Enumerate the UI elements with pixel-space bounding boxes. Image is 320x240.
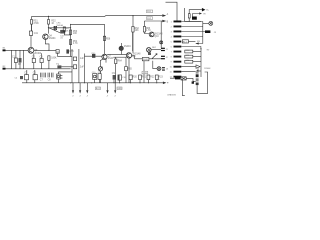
svg-text:R56: R56 (106, 39, 111, 41)
component X3 box (73, 65, 76, 69)
wire R15 down (144, 21, 149, 34)
wire input to Q2 (6, 49, 29, 51)
ground arrow G2 (79, 90, 81, 93)
wire X9 right (193, 56, 201, 58)
wire C1 bottom lead (30, 35, 32, 47)
trimmer T2 (100, 59, 106, 83)
svg-text:.05: .05 (60, 38, 64, 40)
wire top rail A (32, 15, 163, 18)
wire line y13.2 (193, 14, 200, 17)
svg-text:D2: D2 (18, 64, 22, 66)
resistor R17 (125, 67, 128, 71)
wire pin13 left (170, 77, 175, 79)
resistor R3 (63, 27, 65, 31)
capacitor C2 blob (60, 30, 65, 34)
capacitor C7 (25, 75, 29, 80)
svg-text:J300: J300 (143, 73, 148, 75)
svg-text:7: 7 (171, 51, 173, 53)
capacitor C20 dark (192, 17, 197, 20)
wire R11 stub (147, 80, 149, 83)
wire J300 to bus (143, 74, 145, 83)
wire vline x201 (200, 49, 202, 77)
svg-text:1N34A: 1N34A (56, 24, 63, 27)
component dark blob lower right (192, 81, 194, 83)
wire X8 right (193, 51, 201, 53)
svg-text:2N40: 2N40 (108, 58, 114, 60)
resistor R10 (139, 75, 142, 80)
label DX2 (146, 17, 152, 20)
node junction x201 (200, 48, 201, 49)
svg-text:4: 4 (171, 36, 173, 38)
svg-text:R64: R64 (118, 61, 123, 63)
box X7 (182, 40, 188, 43)
ground drop G3 (86, 83, 88, 91)
jack J2 bars (162, 67, 165, 68)
svg-text:-9: -9 (114, 95, 116, 97)
capacitor C9 pair (41, 73, 43, 78)
jack J1 bars (161, 48, 165, 49)
wire pin4 right (181, 36, 203, 38)
wire R1 bottom lead (31, 24, 33, 31)
trimmer arrow (152, 54, 157, 59)
stack component S2 (196, 74, 199, 77)
transistor Q5 (149, 32, 154, 37)
resistor R7 (103, 36, 105, 40)
wire R16 down (115, 64, 117, 83)
wire C4 leads (33, 53, 35, 69)
svg-text:3: 3 (171, 31, 173, 33)
wire ground rail left (6, 68, 71, 70)
svg-text:GND: GND (117, 88, 122, 90)
transistor Q3 (102, 54, 107, 59)
component X4 dark box (57, 65, 61, 68)
component X2 box (73, 57, 76, 61)
svg-text:8: 8 (171, 56, 173, 58)
svg-text:-9: -9 (86, 95, 88, 97)
wire R2 bottom lead (48, 24, 50, 28)
resistor R11 (147, 75, 150, 80)
transistor Q1 (43, 34, 48, 39)
resistor R16 (115, 59, 117, 64)
resistor R4 (70, 30, 72, 35)
X12 circle (57, 75, 59, 77)
svg-text:IN1: IN1 (2, 47, 5, 49)
svg-text:5: 5 (171, 41, 173, 43)
svg-text:J1: J1 (166, 49, 169, 51)
wire C13 stub (113, 80, 115, 83)
connector pin header (174, 21, 182, 78)
wire bottom bus (22, 82, 163, 84)
svg-text:4.7K: 4.7K (73, 43, 78, 45)
wire stack top (193, 70, 197, 81)
svg-text:9: 9 (171, 61, 173, 63)
wire R6 lead (58, 49, 72, 56)
wire R1 top stub (31, 17, 33, 20)
svg-text:R9: R9 (197, 41, 201, 43)
resistor R9 (129, 75, 132, 80)
wire column K4 (line A drop) (104, 36, 106, 54)
box D4 (142, 58, 149, 61)
wire bottom bus junctions (70, 82, 157, 83)
wire R2 top stub (48, 16, 50, 19)
svg-text:Q9: Q9 (132, 56, 136, 58)
wire X4 to K2 (61, 66, 73, 68)
svg-text:1K: 1K (51, 23, 54, 25)
svg-text:R22: R22 (150, 77, 155, 79)
wire left loop vertical 1b (23, 50, 25, 69)
capacitor C13 dark (113, 75, 116, 80)
svg-text:B+: B+ (206, 10, 209, 12)
wire pin3 to plug (181, 31, 205, 33)
wire pin2 right (181, 26, 203, 28)
svg-text:C6: C6 (33, 72, 37, 74)
svg-text:100K: 100K (51, 58, 57, 60)
resistor R6 dark (66, 49, 69, 53)
resistor R20 (188, 14, 190, 18)
wire R16 top stub (115, 57, 117, 59)
svg-text:B.01: B.01 (96, 88, 100, 90)
svg-text:Q10: Q10 (154, 36, 159, 38)
svg-text:DX2: DX2 (147, 18, 152, 20)
node junction B1 (64, 27, 65, 28)
svg-text:B: B (167, 22, 169, 24)
resistor R15 (143, 27, 145, 33)
wire R10 stub (139, 80, 141, 83)
stack component S4 (196, 83, 199, 86)
svg-text:J2: J2 (166, 57, 169, 59)
lamp X small (160, 41, 163, 44)
svg-text:10K: 10K (135, 30, 140, 32)
label L2 (142, 71, 148, 74)
wire C16 stub (99, 79, 101, 82)
wire pin6 right (181, 47, 201, 49)
svg-text:R65: R65 (128, 68, 133, 70)
svg-text:C21: C21 (98, 72, 101, 74)
svg-text:C8: C8 (48, 80, 52, 82)
svg-text:C20: C20 (92, 72, 95, 74)
wire Q2 to node (34, 49, 56, 51)
ground arrow G1 (72, 90, 74, 93)
svg-text:1uF: 1uF (80, 58, 85, 60)
arrow bottom bus (163, 82, 167, 85)
ground drop G4 (107, 83, 109, 91)
ground drop G1 (72, 83, 74, 91)
wire rail B right segment (144, 20, 162, 22)
input pin P2 (3, 68, 6, 70)
wire left loop vertical 2 (15, 50, 17, 69)
wire R20 top (189, 10, 202, 14)
component X5 dark (92, 54, 95, 58)
wire C8 stub (34, 70, 36, 83)
svg-text:10: 10 (170, 66, 173, 68)
svg-text:R21: R21 (142, 77, 147, 79)
transistor Q2 (28, 47, 34, 53)
lamp L2 (157, 67, 161, 71)
wire R14 top (132, 16, 134, 27)
wire R12 stub (156, 80, 158, 83)
wire D5 right (186, 78, 193, 81)
capacitor C10 pair (44, 73, 46, 78)
wire X12 top line (58, 72, 72, 74)
diode D1 (54, 26, 57, 29)
input pin P1 (3, 49, 6, 51)
resistor R12 (155, 75, 158, 80)
box X10 (185, 60, 193, 63)
svg-text:9V: 9V (207, 50, 210, 52)
svg-text:1: 1 (171, 21, 173, 23)
arrow right 2 (199, 12, 202, 14)
wire jack column feed (160, 21, 162, 48)
wire R20 bottom (185, 18, 201, 22)
wire C15 stub (94, 79, 96, 82)
lamp L1 (147, 48, 152, 53)
ground arrow G4 (106, 90, 108, 93)
stack component S3 (196, 78, 199, 81)
wire to lamp L3 (203, 22, 209, 24)
wire column K2 (71, 49, 73, 83)
capacitor C4 (32, 58, 35, 62)
diode D3 dark (19, 58, 22, 63)
capacitor C16 (98, 74, 101, 80)
svg-text:6: 6 (171, 46, 173, 48)
resistor R2 (48, 20, 50, 25)
pin13 bar (175, 77, 180, 79)
capacitor C8 (33, 75, 37, 80)
ground drop G2 (79, 83, 81, 91)
label bus box 2 (117, 87, 122, 90)
svg-text:J3: J3 (214, 32, 217, 34)
svg-text:2N404: 2N404 (124, 46, 131, 48)
box label X6 (56, 50, 59, 54)
ground arrow G5 (114, 90, 116, 93)
wire tail x182.4 (182, 80, 184, 96)
box X8 (185, 50, 193, 53)
svg-text:C9: C9 (112, 73, 116, 75)
wire Q1 collector diagonal (45, 28, 60, 51)
ground drop G5 (114, 83, 116, 91)
wire Q4 collector up (132, 32, 134, 51)
resistor R14 (132, 27, 134, 33)
wire column K3 (78, 49, 80, 83)
wire corner top right (166, 2, 178, 20)
svg-text:A: A (167, 13, 169, 16)
arrow head rail A (162, 14, 166, 17)
capacitor C15 circle (93, 75, 96, 78)
svg-text:1K: 1K (66, 30, 69, 32)
wire column K1 (70, 24, 72, 49)
svg-text:10K: 10K (73, 33, 78, 35)
wire R14 down (132, 32, 134, 53)
wire left loop vertical 3 (19, 50, 21, 69)
wire R9 stub (130, 80, 132, 83)
svg-text:C41: C41 (34, 33, 39, 35)
capacitor X13 dashes (60, 76, 62, 78)
component X12 box with circle (57, 74, 61, 79)
svg-text:-9: -9 (72, 95, 74, 97)
wire R8 leads (48, 56, 50, 69)
svg-text:DX40: DX40 (143, 59, 149, 61)
node junction A2 (48, 27, 49, 28)
svg-text:C5: C5 (24, 72, 28, 74)
wire pin5 via box (189, 41, 196, 43)
capacitor C12 pair (52, 73, 54, 78)
wire x203.7 end (196, 22, 203, 44)
box X9 (185, 55, 193, 58)
svg-text:C7: C7 (40, 80, 44, 82)
capacitor C14 (118, 75, 122, 80)
node junction R14 (132, 15, 133, 16)
resistor R1 (31, 20, 33, 25)
svg-text:C4: C4 (15, 78, 18, 80)
svg-text:NE2: NE2 (152, 47, 157, 49)
svg-text:-9: -9 (79, 95, 81, 97)
wire C7 stub (26, 70, 28, 83)
svg-text:B-: B- (158, 79, 160, 81)
svg-text:IN2: IN2 (2, 66, 5, 68)
svg-text:-9: -9 (107, 95, 109, 97)
svg-text:2N404: 2N404 (34, 53, 41, 55)
svg-text:J3: J3 (166, 69, 169, 71)
resistor R5 (70, 40, 72, 45)
wire C14 stub (119, 80, 121, 83)
wire node R3 to column (64, 31, 70, 35)
wire C5 leads (41, 53, 43, 69)
wire pin1 right (181, 21, 203, 23)
svg-text:CHASSIS: CHASSIS (167, 94, 176, 97)
svg-text:9V: 9V (203, 14, 206, 16)
arrow head rail B (162, 20, 166, 23)
svg-text:2: 2 (171, 26, 173, 28)
svg-text:11: 11 (170, 71, 173, 73)
svg-text:R55: R55 (69, 51, 74, 53)
wire left loop vertical 1 (10, 50, 12, 69)
svg-text:2uF: 2uF (80, 66, 85, 68)
resistor R8 (48, 56, 50, 61)
wire Q7 down (181, 68, 201, 71)
arrow dark right 1 (202, 8, 206, 12)
transistor Q4 (126, 53, 131, 58)
wire stack loop (197, 72, 208, 93)
capacitor C5 (40, 58, 43, 62)
svg-text:DX1: DX1 (147, 11, 152, 13)
svg-text:R20: R20 (133, 77, 138, 79)
transistor Q7 (196, 65, 200, 71)
lamp L3 (209, 21, 213, 25)
label bus box 1 (95, 87, 100, 90)
svg-text:470K: 470K (33, 23, 39, 25)
capacitor C3 (14, 58, 17, 63)
node junction A1 (48, 16, 49, 17)
wire X12 stub (57, 79, 59, 83)
plug dark bar (205, 30, 210, 33)
wire X5 to Q3 (85, 54, 102, 83)
capacitor C15 electrolytic (93, 74, 97, 80)
wire X10 right (193, 61, 201, 63)
capacitor C1 (29, 31, 32, 35)
svg-text:R60: R60 (92, 53, 97, 55)
stack component S1 (196, 72, 199, 74)
wire rail B (49, 24, 105, 36)
svg-text:R200K: R200K (204, 68, 211, 70)
capacitor C11 pair (48, 73, 50, 78)
node junction Q2R (48, 50, 49, 51)
label DX1 (146, 10, 152, 13)
arrow left small (196, 42, 199, 44)
svg-text:4.7K: 4.7K (146, 30, 151, 32)
svg-text:2N404: 2N404 (49, 38, 56, 40)
wire pin11 right (181, 66, 196, 68)
ground arrow G3 (86, 90, 88, 93)
transistor Q6 (119, 46, 123, 50)
wire vline x184.7 (184, 8, 186, 22)
capacitor C6 dark (20, 76, 23, 79)
diode D5 box (181, 77, 186, 80)
